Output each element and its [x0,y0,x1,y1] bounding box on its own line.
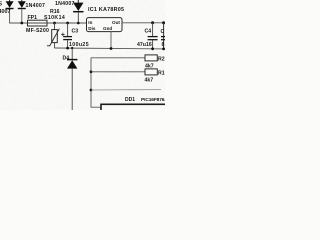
wire (bus from R2 row down to DD1) [91,58,145,107]
node (bus to mid wire) [90,89,93,92]
node (D4 to ground rail) [71,47,73,49]
svg-text:FP1: FP1 [28,15,38,21]
node (C4 bottom) [151,47,154,50]
svg-text:C4: C4 [145,29,152,35]
svg-text:1N4007: 1N4007 [55,1,75,7]
resistor R2 [145,55,157,61]
svg-text:5: 5 [0,2,2,8]
resistor R1 [145,69,157,75]
svg-text:R2: R2 [158,56,165,62]
node (junction of two diodes) [20,22,23,25]
wire (R1 row) [91,71,145,73]
IC DD1 box (clipped bottom-right) [101,104,171,116]
capacitor C4 [151,21,154,24]
node (C5 bottom) [162,48,165,51]
wire (input rail to fuse and IC In) [9,22,86,24]
svg-text:R1: R1 [158,70,165,76]
node (bus to R1 wire) [90,70,93,73]
ground rail (bottom common) [55,47,166,50]
diode D (1N4007, top-left second) [18,0,26,23]
svg-text:1N4007: 1N4007 [26,3,46,9]
svg-text:Dis: Dis [88,26,96,31]
node (gnd pin to rail) [110,47,113,50]
diode D (1N4007, top third) [73,0,83,23]
node (C3 top) [66,22,69,25]
fuse FP1 [28,20,48,26]
node (C3 bottom) [66,47,69,50]
svg-text:C: C [161,29,165,35]
svg-text:Gnd: Gnd [103,26,112,31]
svg-text:S10K14: S10K14 [44,15,65,21]
capacitor C5 (clipped at right edge) [162,21,165,24]
svg-text:D4: D4 [63,56,70,62]
wire (middle horizontal) [91,89,161,91]
background [0,0,165,110]
svg-text:IC1 KA78R05: IC1 KA78R05 [88,7,124,13]
svg-text:DD1: DD1 [125,97,135,103]
node (diode to rail) [77,22,80,25]
node (varistor tap) [53,22,56,25]
wire (IC output rail) [122,22,165,24]
svg-text:4007: 4007 [0,9,11,15]
svg-text:4k7: 4k7 [145,78,154,84]
svg-text:47u16: 47u16 [137,42,152,48]
svg-text:C3: C3 [72,29,79,35]
svg-text:Out: Out [112,20,120,25]
wire (IC Gnd pin down) [110,32,112,49]
capacitor C3 [61,23,72,48]
svg-text:100u25: 100u25 [69,42,89,48]
varistor R16 [47,23,59,48]
svg-text:8: 8 [162,42,165,48]
svg-text:MF-S200: MF-S200 [26,28,49,34]
svg-text:In: In [88,20,92,25]
diode D4 [67,48,77,110]
diode D (1N4007, top-left first) [6,0,14,23]
svg-text:PIC16F876A: PIC16F876A [141,97,165,103]
